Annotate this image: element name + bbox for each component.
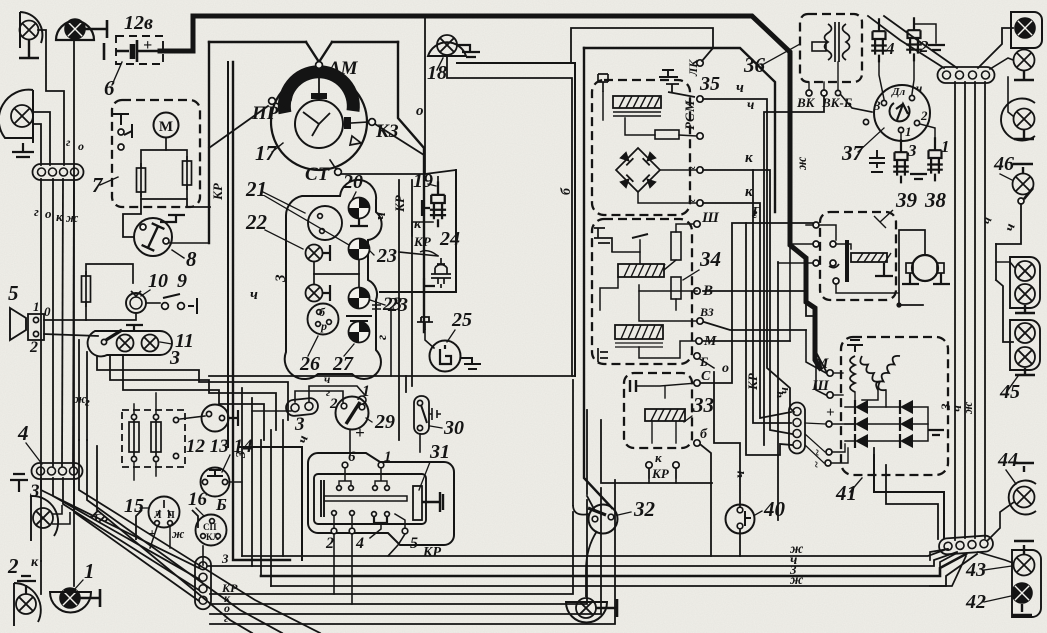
wire diagonal 7 xyxy=(97,446,252,633)
svg-text:М: М xyxy=(682,100,697,113)
svg-text:3: 3 xyxy=(273,274,289,283)
svg-text:СП: СП xyxy=(203,522,217,532)
terminal КЗ xyxy=(369,119,376,126)
gauge 15 xyxy=(149,497,180,528)
dimmer switch 8 xyxy=(134,218,172,256)
right bundle x965 xyxy=(964,82,966,538)
wire to top lamp xyxy=(978,28,1013,68)
lamp 23b (quadrant) xyxy=(344,283,374,313)
lamp 22b lower xyxy=(306,285,323,302)
spark plug 2 top xyxy=(906,17,922,61)
svg-text:26: 26 xyxy=(299,353,320,375)
ammeter 17 outer circle xyxy=(271,74,367,170)
wire: panel border outer (left) xyxy=(209,41,306,43)
svg-text:3: 3 xyxy=(221,551,229,566)
35 wiring b xyxy=(625,118,655,135)
wire bundle row 3 (3) thick xyxy=(261,554,966,576)
wire 32 down to lamp xyxy=(586,531,597,597)
switch 9 xyxy=(162,303,169,310)
terminal 4 of 31 xyxy=(349,528,355,534)
wire vert bundle x252 xyxy=(251,398,253,566)
distributor 37 xyxy=(874,85,930,141)
right vertical bundle x955 xyxy=(954,82,956,540)
ground above lamp 2 xyxy=(17,576,36,594)
wire box7 to dimmer 8 xyxy=(123,199,141,237)
svg-text:КР: КР xyxy=(651,466,670,481)
radio speaker 5 xyxy=(10,308,26,340)
terminal Ш of 34 xyxy=(694,221,700,227)
wire б long horizontal y=376 xyxy=(209,375,575,377)
border stair A2 xyxy=(572,380,574,505)
switch 40 xyxy=(726,505,755,534)
svg-text:1: 1 xyxy=(905,124,912,139)
diode 41 r2c2 xyxy=(900,417,913,431)
33 wire to C xyxy=(636,383,697,386)
gauge 15 bracket xyxy=(136,510,198,540)
36 transformer xyxy=(825,22,850,62)
lamp p2b xyxy=(1015,347,1035,367)
37 terminals xyxy=(881,100,886,105)
terminal + of 41 xyxy=(826,421,832,427)
41 ground top xyxy=(847,340,863,352)
terminal В of 34 xyxy=(694,288,700,294)
lamp pair bracket 2 xyxy=(1010,320,1040,370)
feed diag 1 xyxy=(868,16,944,68)
31 knob xyxy=(413,486,422,520)
lamp box 11 outline xyxy=(88,331,172,356)
svg-text:32: 32 xyxy=(633,497,656,521)
42 ground below xyxy=(1012,604,1032,615)
svg-text:18: 18 xyxy=(427,62,447,84)
svg-text:КР: КР xyxy=(745,372,760,391)
svg-text:19: 19 xyxy=(413,170,433,192)
lamp 18 xyxy=(437,35,457,55)
switch 35 lever symbol xyxy=(666,84,695,97)
svg-text:ч: ч xyxy=(747,98,754,113)
cab lamp (top) xyxy=(65,19,85,39)
svg-text:ВК: ВК xyxy=(796,95,816,110)
31 slider plate xyxy=(321,480,324,517)
wire to М terminal xyxy=(806,330,826,373)
wire ЛК corner xyxy=(571,28,713,63)
bottom lamp (engine lamp) xyxy=(576,598,596,618)
lamp 11a xyxy=(117,335,134,352)
wire bundle row 6 (К) xyxy=(210,500,587,604)
lamp3 shell xyxy=(1001,99,1035,141)
svg-text:16: 16 xyxy=(188,489,208,510)
leader 39 xyxy=(874,210,893,228)
lamp 22 xyxy=(306,245,323,262)
wire 40 up ч xyxy=(714,372,740,506)
lamp 1 ground bar xyxy=(80,589,100,607)
lamp 27 (quadrant) xyxy=(344,317,374,347)
wire: staircase from bundle to rear connector xyxy=(874,492,944,538)
svg-text:3: 3 xyxy=(234,451,249,459)
wire row (ж) step to connector xyxy=(930,549,948,560)
lamp p1b xyxy=(1015,284,1035,304)
wire diagonal 6 xyxy=(87,440,282,633)
svg-text:б: б xyxy=(700,427,708,442)
lamp 47 top right (filled) xyxy=(1015,18,1035,38)
horn lead U xyxy=(899,230,925,305)
svg-text:6: 6 xyxy=(104,76,115,100)
wire ВК-Б down-left (ч) xyxy=(764,96,824,445)
wire stair b xyxy=(110,356,276,430)
wire б down-left xyxy=(405,376,407,392)
svg-text:34: 34 xyxy=(699,247,721,271)
wire vert bundle x242 xyxy=(241,388,243,556)
svg-text:3: 3 xyxy=(29,481,40,502)
diode in 35 bridge xyxy=(643,151,657,165)
switch 21 circle xyxy=(308,206,342,240)
svg-text:4: 4 xyxy=(17,421,29,445)
34 resistor vertical 2 xyxy=(671,277,681,299)
wire Ш inside xyxy=(833,394,843,396)
lamp 2 bottom-left xyxy=(16,594,36,614)
wire г from cluster down xyxy=(390,308,392,376)
plug 4 top lead xyxy=(878,22,880,26)
lamp 18 step ground xyxy=(457,45,480,57)
39 wires xyxy=(806,224,813,226)
wire К of 33 down xyxy=(648,468,650,483)
wire Ш riser xyxy=(816,341,826,395)
wire row3 to conn xyxy=(930,556,966,586)
svg-text:8: 8 xyxy=(186,247,197,271)
svg-text:20: 20 xyxy=(342,171,363,193)
svg-text:12в: 12в xyxy=(124,12,153,34)
svg-text:ч: ч xyxy=(250,287,258,303)
svg-text:Дл: Дл xyxy=(891,86,906,98)
wire Б down to bundle xyxy=(710,483,712,556)
diode 41 r2c1 xyxy=(855,417,868,431)
wire: border right of ammeter down xyxy=(398,42,424,332)
wire к line to lamp2 xyxy=(40,561,42,594)
svg-text:5: 5 xyxy=(8,281,19,305)
wire ПР down-left xyxy=(209,106,268,148)
wire vert bundle x261 xyxy=(260,440,262,576)
svg-text:б: б xyxy=(319,305,326,319)
svg-text:ч: ч xyxy=(776,387,791,394)
vert bundle x283 xyxy=(282,420,284,556)
svg-text:+: + xyxy=(143,37,152,54)
diode 41 r1c2 xyxy=(900,400,913,414)
terminal ~1 of 35 xyxy=(697,167,703,173)
svg-text:П: П xyxy=(167,510,175,521)
wire plug 2 xyxy=(912,54,914,94)
wire Б of 34 down-right xyxy=(700,359,714,368)
25 ground right xyxy=(460,358,481,369)
wire vert bundle x271 xyxy=(270,430,272,586)
wire cab lamp down to lamp 1 xyxy=(73,40,75,586)
37 center electrode xyxy=(896,104,908,120)
horn button 10 xyxy=(126,293,146,313)
wire 41 bottom xyxy=(873,448,875,455)
terminal Б of 33 xyxy=(694,440,700,446)
34 resistor vertical 1 xyxy=(671,232,681,260)
ground bar at 11 xyxy=(126,325,143,331)
regulator 35 dashed box xyxy=(592,80,690,215)
terminal 2 of 31 xyxy=(331,528,337,534)
35 resistor xyxy=(655,130,679,139)
wire 8 to ПР riser xyxy=(170,242,209,244)
lamp 43 xyxy=(1014,555,1035,576)
36 primary resistor xyxy=(812,42,826,51)
svg-text:ж: ж xyxy=(172,526,185,541)
wire В-34 staircase to М of 41 xyxy=(703,291,826,371)
svg-text:ч: ч xyxy=(373,212,389,220)
35 diode bridge xyxy=(616,148,660,192)
wire bundle row 5 (КР) xyxy=(210,512,573,594)
fuse in box 7 right xyxy=(183,156,192,190)
39 contacts xyxy=(813,222,819,228)
horn junction xyxy=(896,302,901,307)
fuse box 12 dashed xyxy=(122,410,185,467)
46 switch lever xyxy=(1018,198,1024,204)
lamp 2nd right xyxy=(1014,50,1035,71)
switch in box 7 xyxy=(118,129,124,135)
34 coil upper xyxy=(618,264,665,277)
44 ground bar xyxy=(1014,463,1034,472)
lamp 22b ground xyxy=(323,285,330,301)
svg-text:1: 1 xyxy=(384,449,392,465)
wire plug1 xyxy=(920,124,935,142)
terminal СТ xyxy=(335,169,342,176)
wire 16 to connector xyxy=(202,546,204,565)
terminal 6 of 31 xyxy=(342,462,348,468)
radio plug 5 xyxy=(28,314,44,340)
ground above 3 xyxy=(10,474,28,492)
svg-text:3: 3 xyxy=(873,98,881,113)
svg-text:КР: КР xyxy=(413,234,432,249)
svg-text:Б: Б xyxy=(215,495,227,514)
wire radio pin1 fuse line xyxy=(44,319,86,321)
wire 29 t2 loop (г) xyxy=(295,391,343,402)
svg-text:~: ~ xyxy=(809,461,823,468)
svg-text:22: 22 xyxy=(245,210,268,234)
svg-text:33: 33 xyxy=(692,393,714,417)
wire о (ammeter СТ to rear) xyxy=(424,17,426,174)
svg-text:к: к xyxy=(414,217,422,232)
lamp 46 xyxy=(1013,174,1034,195)
wire: central block top border xyxy=(584,48,775,212)
terminal ПР xyxy=(269,98,276,105)
wire 15 terminals down xyxy=(150,527,157,548)
svg-text:2: 2 xyxy=(29,339,38,356)
svg-text:г: г xyxy=(34,204,39,219)
wire 29 down xyxy=(349,430,351,452)
relay-regulator 34 dashed box xyxy=(592,219,692,364)
cluster outline xyxy=(285,180,382,379)
wire bundle row 7 (о) xyxy=(210,488,601,614)
wire diagonal 1 xyxy=(41,478,199,568)
wires headlamp to connector xyxy=(33,112,50,165)
wire К from 19 to cluster xyxy=(412,222,433,236)
46 ground above xyxy=(1013,164,1033,173)
headlamp left shell xyxy=(0,90,33,143)
wire 25 to cap xyxy=(425,330,434,348)
wire г vertical xyxy=(86,352,88,440)
connector 2-pin near 29 xyxy=(285,397,318,416)
parking lamp shell xyxy=(20,12,42,48)
wire bundle row 4 (ж) xyxy=(271,554,977,586)
wire lamps 22 loop xyxy=(314,260,359,274)
wire to lamp44 xyxy=(988,502,1014,540)
fuse top leads xyxy=(133,404,135,413)
39 ground xyxy=(875,263,893,276)
wire КР long vertical left xyxy=(227,62,229,447)
svg-text:к: к xyxy=(745,150,753,166)
wire 35 res to М xyxy=(679,135,696,136)
terminal КР of 33 xyxy=(673,462,679,468)
wire fuse down xyxy=(85,302,87,320)
diode 41 r3c2 xyxy=(900,434,913,448)
39 coil wire xyxy=(836,244,851,249)
lamp p1a xyxy=(1015,261,1035,281)
spark plug 1 bottom xyxy=(927,137,943,181)
svg-text:к: к xyxy=(31,555,39,570)
lamp 22 ground xyxy=(323,245,330,261)
cab lamp ground bar xyxy=(85,20,107,38)
junction tick 23 xyxy=(372,305,381,309)
switch lever in 11 xyxy=(101,339,106,344)
wire radio pin2 xyxy=(44,334,98,336)
svg-text:М: М xyxy=(159,119,173,135)
wire КЗ to border xyxy=(375,124,424,155)
svg-text:КР: КР xyxy=(422,545,441,560)
41 winding leads xyxy=(885,390,887,407)
34 armature lines xyxy=(612,252,640,264)
terminal М of 35 xyxy=(697,133,703,139)
wire С of 33 right xyxy=(701,223,813,383)
svg-text:29: 29 xyxy=(374,411,395,433)
wire bundle row 2 (ч) xyxy=(252,552,957,566)
33 contact symbols xyxy=(630,380,636,392)
wire ~1 row xyxy=(832,444,845,452)
lamp 2nd ground bar xyxy=(1014,71,1034,80)
svg-text:41: 41 xyxy=(835,481,857,505)
parking lamp top-left xyxy=(20,21,39,40)
svg-text:СТ: СТ xyxy=(305,164,331,185)
sub-panel border left xyxy=(240,447,302,560)
switch 31 outer border xyxy=(308,453,454,545)
svg-text:25: 25 xyxy=(451,309,472,331)
svg-text:ПР: ПР xyxy=(251,103,279,124)
svg-text:3: 3 xyxy=(294,414,305,435)
lamp 1 bottom (cab floor lamp) xyxy=(60,588,80,608)
34 lower contact detail xyxy=(598,348,608,362)
diode in 35 bridge xyxy=(643,175,657,189)
diode 41 r1c1 xyxy=(855,400,868,414)
wire ВЗ to right xyxy=(704,322,806,330)
ammeter dark arc xyxy=(284,72,353,113)
svg-text:2: 2 xyxy=(325,535,334,552)
border around senders 19/24 xyxy=(380,170,456,292)
ground at 8 xyxy=(160,215,185,222)
svg-text:Ш: Ш xyxy=(701,210,720,226)
svg-text:о: о xyxy=(78,139,84,153)
svg-text:1: 1 xyxy=(33,299,40,314)
wire connector left out xyxy=(252,410,291,412)
stop-light switch 25 xyxy=(430,341,461,372)
lamp p2a xyxy=(1015,323,1035,343)
wire 24 hook xyxy=(420,251,438,256)
bottom lamp ground xyxy=(596,599,617,617)
svg-text:о: о xyxy=(45,206,52,221)
svg-text:7: 7 xyxy=(92,173,104,197)
switch 32 xyxy=(589,505,618,534)
svg-text:43: 43 xyxy=(965,559,986,581)
svg-text:2: 2 xyxy=(329,396,338,412)
wire + row xyxy=(832,423,854,425)
wire К from 35 t1 xyxy=(703,170,792,434)
fuse in box 7 left xyxy=(137,163,146,197)
31 U link xyxy=(374,517,387,523)
wire x746 vertical xyxy=(746,223,792,455)
svg-text:42: 42 xyxy=(965,591,986,613)
switch 31 body xyxy=(314,474,426,524)
41 stator windings xyxy=(850,356,900,392)
svg-text:46: 46 xyxy=(993,153,1014,175)
svg-text:ЛК: ЛК xyxy=(686,59,700,77)
wire 14 right xyxy=(229,481,242,483)
svg-text:5: 5 xyxy=(410,535,418,552)
svg-text:21: 21 xyxy=(245,177,267,201)
lamp 23a (quadrant) xyxy=(344,234,374,264)
31 bottom contact pairs xyxy=(332,511,337,516)
svg-text:ч: ч xyxy=(324,372,330,386)
ground at 19 xyxy=(422,200,430,216)
wire ч vertical (x=412) xyxy=(411,180,413,386)
diode 41 r3c1 xyxy=(855,434,868,448)
wire box7 right to bus xyxy=(187,199,210,207)
wire 13 to fusebox xyxy=(180,416,205,419)
wire x753 vertical xyxy=(753,170,791,423)
wire СТ goes right to panel xyxy=(341,170,456,174)
lamp 44 xyxy=(1014,487,1035,508)
39 armature bar xyxy=(845,240,849,282)
svg-text:23: 23 xyxy=(376,245,397,267)
terminal ~2 of 35 xyxy=(697,200,703,206)
wire parking lamp to connector xyxy=(38,30,64,165)
wire bundle row 1 (ж) xyxy=(242,549,947,556)
svg-text:9: 9 xyxy=(177,270,187,292)
svg-text:3: 3 xyxy=(907,141,917,160)
wire ~2 row xyxy=(831,448,848,463)
top right lamp bracket xyxy=(1011,12,1042,48)
terminal ВЗ of 34 xyxy=(697,318,703,324)
wire 46 down staircase xyxy=(996,204,1021,244)
svg-text:ч: ч xyxy=(733,471,748,478)
svg-text:ж: ж xyxy=(795,156,810,170)
wire x778 vertical xyxy=(777,262,779,520)
svg-text:44: 44 xyxy=(997,449,1018,471)
svg-text:ж: ж xyxy=(66,210,79,225)
svg-text:1: 1 xyxy=(362,383,370,400)
wire КР from 24 to wire xyxy=(399,252,438,256)
svg-text:о: о xyxy=(416,103,424,119)
lamp 20 (two-quadrant) xyxy=(344,193,374,223)
wire stair r2 xyxy=(886,465,938,539)
svg-text:г: г xyxy=(375,335,390,340)
ground top plugs xyxy=(928,45,945,50)
39 coil hatched xyxy=(851,253,891,262)
24 body xyxy=(431,258,451,288)
fuse bottom leads xyxy=(133,463,135,480)
svg-text:ж: ж xyxy=(790,573,804,588)
svg-text:к: к xyxy=(745,184,753,200)
svg-text:4: 4 xyxy=(885,39,895,58)
svg-text:КР: КР xyxy=(210,182,225,201)
